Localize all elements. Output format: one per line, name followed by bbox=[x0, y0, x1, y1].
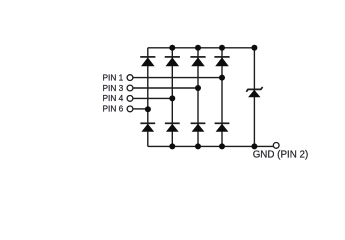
wire right branch bbox=[253, 48, 255, 147]
wire column 2 bbox=[171, 48, 173, 147]
junction top rail col 4 bbox=[219, 45, 225, 51]
wire column 1 bbox=[147, 48, 149, 147]
wire top rail bbox=[148, 47, 255, 49]
diode D6 bottom column 2 bbox=[165, 123, 180, 132]
wire PIN 1 lead bbox=[133, 77, 222, 79]
junction bottom rail col 4 bbox=[219, 143, 225, 149]
diode D5 bottom column 1 bbox=[140, 123, 155, 132]
terminal PIN 1 bbox=[127, 75, 133, 81]
junction PIN 1 to column 4 bbox=[219, 75, 225, 81]
wire bottom rail bbox=[148, 145, 273, 147]
svg-text:PIN 6: PIN 6 bbox=[103, 104, 124, 114]
svg-text:GND (PIN 2): GND (PIN 2) bbox=[253, 150, 309, 161]
junction top rail col 3 bbox=[195, 45, 201, 51]
junction PIN 4 to column 2 bbox=[169, 95, 175, 101]
diode D4 top column 4 bbox=[214, 57, 229, 66]
wire column 3 bbox=[197, 48, 199, 147]
junction bottom rail right branch bbox=[251, 143, 257, 149]
diode D2 top column 2 bbox=[165, 57, 180, 66]
wire PIN 3 lead bbox=[133, 87, 198, 89]
diode D7 bottom column 3 bbox=[191, 123, 206, 132]
diode D8 bottom column 4 bbox=[215, 123, 230, 132]
junction bottom rail col 2 bbox=[169, 143, 175, 149]
terminal PIN 4 bbox=[127, 96, 133, 102]
terminal PIN 3 bbox=[127, 85, 133, 91]
svg-text:PIN 4: PIN 4 bbox=[103, 93, 124, 103]
junction bottom rail col 3 bbox=[195, 143, 201, 149]
terminal PIN 6 bbox=[127, 106, 133, 112]
diode D1 top column 1 bbox=[140, 57, 155, 66]
terminal GND (PIN 2) bbox=[273, 143, 279, 149]
diode D3 top column 3 bbox=[190, 57, 205, 66]
junction top rail right corner bbox=[251, 45, 257, 51]
svg-text:PIN 3: PIN 3 bbox=[103, 83, 124, 93]
wire column 4 bbox=[221, 48, 223, 147]
junction top rail col 2 bbox=[169, 45, 175, 51]
zener diode Z1 bbox=[246, 87, 262, 97]
junction PIN 3 to column 3 bbox=[195, 85, 201, 91]
wire PIN 4 lead bbox=[133, 97, 172, 99]
svg-text:PIN 1: PIN 1 bbox=[103, 72, 124, 82]
wire PIN 6 lead bbox=[133, 108, 148, 110]
junction PIN 6 to column 1 bbox=[145, 106, 151, 112]
